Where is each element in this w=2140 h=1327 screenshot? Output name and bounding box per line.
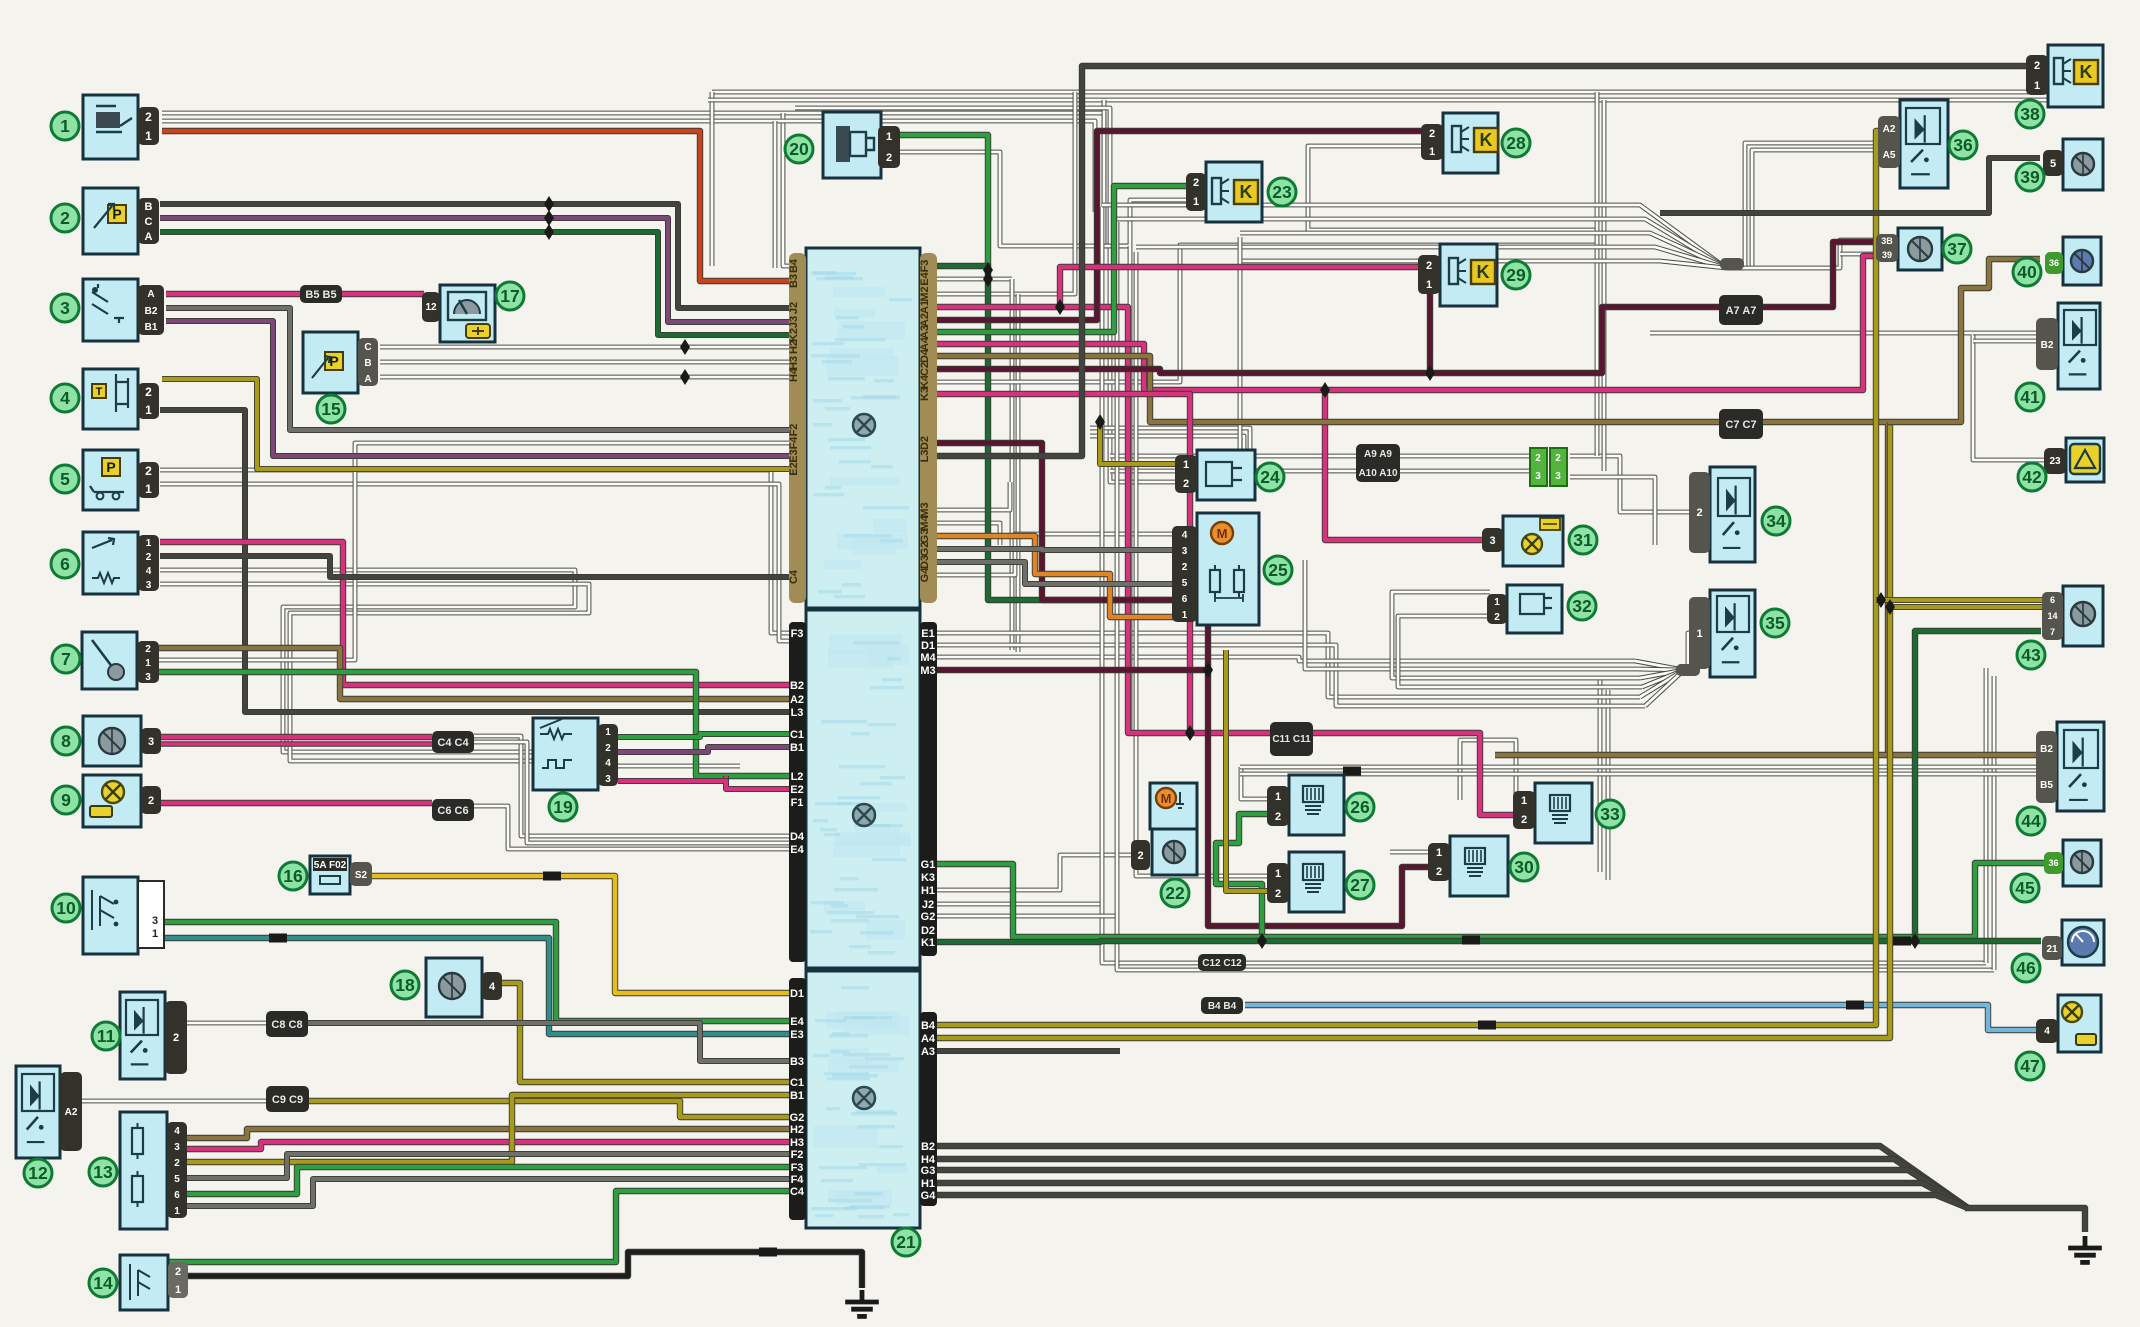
svg-text:T: T	[96, 386, 103, 398]
svg-text:40: 40	[2017, 262, 2037, 282]
svg-text:45: 45	[2015, 878, 2035, 898]
svg-text:36: 36	[1953, 135, 1973, 155]
svg-text:E4: E4	[919, 271, 931, 285]
svg-text:4: 4	[174, 1126, 180, 1137]
svg-text:3: 3	[605, 774, 611, 785]
svg-text:19: 19	[553, 797, 573, 817]
svg-text:1: 1	[175, 1284, 181, 1296]
svg-text:B5: B5	[2040, 780, 2053, 791]
svg-text:F4: F4	[791, 1174, 805, 1186]
svg-text:2: 2	[1426, 260, 1432, 272]
svg-text:3: 3	[174, 1142, 180, 1153]
svg-text:2: 2	[1137, 850, 1143, 862]
svg-text:33: 33	[1600, 804, 1620, 824]
svg-text:4: 4	[1182, 530, 1188, 541]
svg-text:D2: D2	[921, 925, 935, 937]
svg-text:2: 2	[886, 152, 892, 164]
svg-text:1: 1	[605, 727, 611, 738]
svg-text:G2: G2	[921, 911, 936, 923]
svg-text:C4: C4	[790, 1186, 805, 1198]
svg-text:14: 14	[93, 1273, 113, 1293]
svg-text:2: 2	[145, 110, 152, 124]
svg-text:B: B	[145, 201, 153, 213]
svg-text:2: 2	[1436, 866, 1442, 878]
svg-text:1: 1	[1275, 791, 1281, 803]
svg-text:A4: A4	[919, 336, 931, 351]
svg-text:6: 6	[1182, 594, 1188, 605]
svg-text:2: 2	[1535, 453, 1541, 464]
svg-text:B2: B2	[145, 306, 158, 317]
svg-text:K: K	[1477, 262, 1490, 282]
svg-text:H2: H2	[790, 1124, 804, 1136]
svg-text:M3: M3	[920, 665, 935, 677]
svg-text:23: 23	[2049, 456, 2061, 467]
svg-text:G1: G1	[921, 859, 936, 871]
svg-text:47: 47	[2020, 1056, 2039, 1076]
svg-text:D4: D4	[790, 831, 805, 843]
svg-text:B3: B3	[788, 274, 800, 288]
svg-text:1: 1	[1426, 279, 1432, 291]
svg-text:K4: K4	[919, 374, 931, 389]
svg-text:4: 4	[60, 388, 70, 408]
svg-text:5: 5	[1182, 578, 1188, 589]
svg-text:D1: D1	[790, 988, 804, 1000]
svg-text:3: 3	[146, 580, 152, 591]
svg-text:L3: L3	[791, 707, 804, 719]
svg-text:M2: M2	[919, 286, 931, 301]
svg-text:5A F02: 5A F02	[314, 860, 347, 871]
svg-text:C2: C2	[919, 362, 931, 376]
svg-text:1: 1	[1521, 795, 1527, 807]
svg-text:B2: B2	[2041, 340, 2054, 351]
svg-text:A: A	[147, 289, 154, 300]
svg-text:F3: F3	[791, 628, 804, 640]
svg-text:38: 38	[2020, 104, 2040, 124]
svg-text:B4 B4: B4 B4	[1208, 1001, 1237, 1012]
svg-text:F3: F3	[791, 1162, 804, 1174]
svg-text:2: 2	[1696, 507, 1702, 519]
svg-text:1: 1	[1183, 459, 1189, 471]
svg-text:2: 2	[145, 385, 152, 399]
svg-text:42: 42	[2022, 467, 2042, 487]
svg-text:A2: A2	[1883, 124, 1896, 135]
svg-text:20: 20	[789, 139, 809, 159]
svg-text:15: 15	[321, 399, 341, 419]
svg-text:1: 1	[152, 928, 158, 940]
svg-text:24: 24	[1260, 467, 1280, 487]
svg-text:K: K	[1480, 130, 1493, 150]
svg-text:E1: E1	[921, 628, 934, 640]
svg-text:C6 C6: C6 C6	[437, 805, 468, 817]
svg-text:A2: A2	[790, 694, 804, 706]
svg-text:P: P	[106, 459, 115, 475]
svg-text:44: 44	[2021, 811, 2041, 831]
svg-text:3: 3	[1489, 535, 1495, 547]
svg-text:6: 6	[60, 554, 70, 574]
svg-text:A3: A3	[921, 1046, 935, 1058]
svg-text:C: C	[145, 216, 153, 228]
svg-text:S2: S2	[355, 870, 368, 881]
svg-text:2: 2	[1494, 612, 1500, 623]
svg-text:3: 3	[148, 736, 154, 748]
svg-text:G2: G2	[919, 542, 931, 557]
svg-text:E3: E3	[788, 449, 800, 462]
svg-text:1: 1	[145, 129, 152, 143]
svg-text:12: 12	[425, 302, 437, 313]
svg-text:B5 B5: B5 B5	[305, 289, 336, 301]
svg-text:2: 2	[146, 552, 152, 563]
svg-text:29: 29	[1506, 265, 1526, 285]
svg-text:14: 14	[2047, 611, 2057, 621]
svg-text:3: 3	[60, 298, 70, 318]
svg-text:23: 23	[1272, 182, 1292, 202]
svg-text:2: 2	[148, 795, 154, 807]
svg-text:G3: G3	[919, 529, 931, 544]
svg-text:1: 1	[60, 116, 70, 136]
svg-text:4: 4	[605, 758, 611, 769]
svg-text:E4: E4	[790, 1016, 804, 1028]
svg-text:M4: M4	[919, 514, 931, 530]
svg-text:39: 39	[1882, 250, 1892, 260]
svg-text:2: 2	[1275, 811, 1281, 823]
svg-text:12: 12	[28, 1163, 48, 1183]
svg-text:C9 C9: C9 C9	[272, 1094, 303, 1106]
svg-text:4: 4	[146, 566, 152, 577]
svg-text:39: 39	[2020, 167, 2040, 187]
svg-text:1: 1	[145, 482, 152, 496]
svg-text:16: 16	[283, 866, 303, 886]
svg-text:5: 5	[60, 469, 70, 489]
svg-text:B2: B2	[2040, 744, 2053, 755]
svg-text:C1: C1	[790, 729, 804, 741]
svg-text:17: 17	[500, 286, 519, 306]
svg-text:G4: G4	[919, 567, 931, 583]
svg-text:25: 25	[1268, 560, 1288, 580]
svg-text:41: 41	[2020, 387, 2040, 407]
svg-text:3: 3	[145, 672, 151, 683]
svg-text:4: 4	[489, 981, 496, 993]
svg-text:10: 10	[56, 898, 76, 918]
svg-text:D3: D3	[919, 555, 931, 569]
svg-text:A10 A10: A10 A10	[1358, 468, 1398, 479]
svg-text:M4: M4	[920, 652, 936, 664]
svg-text:B3: B3	[790, 1056, 804, 1068]
svg-text:3: 3	[1555, 471, 1561, 482]
svg-text:43: 43	[2021, 645, 2041, 665]
svg-text:A3: A3	[919, 325, 931, 339]
svg-text:1: 1	[1193, 196, 1199, 208]
svg-text:K3: K3	[921, 872, 935, 884]
svg-text:1: 1	[886, 131, 892, 143]
svg-text:36: 36	[2049, 258, 2059, 268]
svg-text:1: 1	[145, 403, 152, 417]
svg-text:M: M	[1217, 526, 1228, 541]
svg-text:7: 7	[61, 649, 71, 669]
svg-text:G4: G4	[921, 1190, 937, 1202]
svg-text:2: 2	[1521, 814, 1527, 826]
svg-text:2: 2	[1183, 478, 1189, 490]
svg-text:F2: F2	[791, 1149, 804, 1161]
svg-text:K2: K2	[788, 328, 800, 342]
svg-text:21: 21	[896, 1232, 916, 1252]
svg-text:2: 2	[60, 208, 70, 228]
svg-text:F3: F3	[919, 260, 931, 273]
svg-text:E2: E2	[790, 784, 803, 796]
svg-text:C4: C4	[788, 569, 800, 584]
svg-text:34: 34	[1766, 511, 1786, 531]
svg-text:D4: D4	[919, 348, 931, 363]
svg-text:7: 7	[2050, 627, 2055, 637]
svg-text:1: 1	[145, 658, 151, 669]
svg-text:A4: A4	[921, 1033, 936, 1045]
svg-text:L2: L2	[791, 771, 804, 783]
svg-text:K1: K1	[921, 937, 935, 949]
svg-text:K: K	[1240, 182, 1253, 202]
svg-text:2: 2	[145, 464, 152, 478]
svg-text:D2: D2	[919, 436, 931, 450]
svg-text:C7 C7: C7 C7	[1725, 419, 1756, 431]
svg-text:1: 1	[146, 538, 152, 549]
svg-text:A5: A5	[1883, 150, 1896, 161]
svg-text:1: 1	[1436, 847, 1442, 859]
svg-text:B: B	[364, 358, 371, 369]
svg-text:J2: J2	[922, 899, 934, 911]
svg-text:2: 2	[145, 644, 151, 655]
svg-text:3: 3	[1182, 546, 1188, 557]
svg-text:6: 6	[2050, 595, 2055, 605]
svg-text:A1: A1	[919, 300, 931, 314]
svg-text:1: 1	[174, 1206, 180, 1217]
svg-text:2: 2	[605, 743, 611, 754]
svg-text:32: 32	[1572, 596, 1592, 616]
svg-text:3: 3	[152, 915, 158, 927]
svg-text:B1: B1	[790, 742, 804, 754]
svg-text:G2: G2	[790, 1112, 805, 1124]
svg-text:C: C	[364, 342, 371, 353]
svg-text:C8 C8: C8 C8	[271, 1019, 302, 1031]
svg-text:26: 26	[1350, 797, 1370, 817]
svg-text:A: A	[364, 374, 371, 385]
svg-text:B4: B4	[921, 1020, 936, 1032]
svg-text:1: 1	[1696, 628, 1702, 640]
svg-text:G3: G3	[921, 1165, 936, 1177]
svg-text:2: 2	[1555, 453, 1561, 464]
svg-text:E2: E2	[788, 462, 800, 475]
svg-text:1: 1	[1182, 610, 1188, 621]
svg-text:C1: C1	[790, 1077, 804, 1089]
svg-text:C11 C11: C11 C11	[1272, 734, 1311, 745]
svg-text:6: 6	[174, 1190, 180, 1201]
svg-text:E4: E4	[790, 844, 804, 856]
svg-text:H2: H2	[788, 340, 800, 354]
svg-text:35: 35	[1765, 613, 1785, 633]
svg-text:J2: J2	[788, 302, 800, 314]
svg-text:37: 37	[1947, 239, 1966, 259]
svg-text:A2: A2	[919, 313, 931, 327]
svg-text:46: 46	[2016, 958, 2036, 978]
svg-text:H3: H3	[790, 1137, 804, 1149]
svg-text:3: 3	[1535, 471, 1541, 482]
svg-text:1: 1	[1275, 868, 1281, 880]
svg-text:F1: F1	[791, 797, 804, 809]
svg-text:M3: M3	[919, 502, 931, 517]
svg-text:L3: L3	[919, 450, 931, 463]
svg-text:2: 2	[175, 1266, 181, 1278]
svg-text:1: 1	[1494, 597, 1500, 608]
svg-text:2: 2	[173, 1032, 179, 1044]
svg-text:P: P	[329, 353, 338, 369]
svg-text:E3: E3	[790, 1029, 803, 1041]
svg-text:C4 C4: C4 C4	[437, 737, 469, 749]
svg-text:H4: H4	[788, 367, 800, 382]
svg-text:30: 30	[1514, 857, 1534, 877]
svg-text:1: 1	[1429, 146, 1435, 158]
svg-text:8: 8	[61, 731, 71, 751]
svg-text:K3: K3	[919, 387, 931, 401]
svg-text:36: 36	[2048, 858, 2058, 868]
svg-text:11: 11	[97, 1026, 116, 1046]
svg-text:H1: H1	[921, 1178, 935, 1190]
svg-text:F4: F4	[788, 436, 800, 450]
svg-text:H1: H1	[921, 885, 935, 897]
svg-text:B2: B2	[790, 680, 804, 692]
svg-text:2: 2	[1193, 177, 1199, 189]
svg-text:2: 2	[1182, 562, 1188, 573]
svg-text:9: 9	[61, 790, 71, 810]
svg-text:4: 4	[2044, 1026, 2050, 1037]
svg-text:18: 18	[395, 975, 415, 995]
svg-text:C12 C12: C12 C12	[1202, 958, 1242, 969]
svg-text:A2: A2	[65, 1107, 78, 1118]
svg-text:22: 22	[1165, 883, 1185, 903]
svg-text:5: 5	[2050, 158, 2056, 170]
svg-text:27: 27	[1350, 875, 1369, 895]
svg-text:1: 1	[2034, 80, 2040, 92]
svg-text:2: 2	[174, 1158, 180, 1169]
svg-text:2: 2	[2034, 60, 2040, 72]
svg-text:B1: B1	[145, 322, 158, 333]
svg-text:5: 5	[174, 1174, 180, 1185]
svg-text:F2: F2	[788, 424, 800, 437]
svg-text:K: K	[2080, 62, 2093, 82]
svg-text:M: M	[1161, 791, 1172, 806]
svg-text:B4: B4	[788, 258, 800, 273]
svg-text:2: 2	[1275, 888, 1281, 900]
svg-text:D1: D1	[921, 640, 935, 652]
svg-text:3B: 3B	[1881, 236, 1893, 246]
svg-text:B2: B2	[921, 1141, 935, 1153]
svg-text:A7 A7: A7 A7	[1726, 305, 1757, 317]
svg-text:13: 13	[93, 1162, 113, 1182]
svg-text:31: 31	[1573, 530, 1593, 550]
svg-text:2: 2	[1429, 128, 1435, 140]
svg-text:A: A	[145, 231, 153, 243]
svg-text:B1: B1	[790, 1090, 804, 1102]
svg-text:J3: J3	[788, 316, 800, 328]
svg-text:H3: H3	[788, 356, 800, 370]
svg-text:28: 28	[1506, 133, 1526, 153]
svg-text:A9 A9: A9 A9	[1364, 449, 1392, 460]
svg-text:21: 21	[2046, 944, 2058, 955]
